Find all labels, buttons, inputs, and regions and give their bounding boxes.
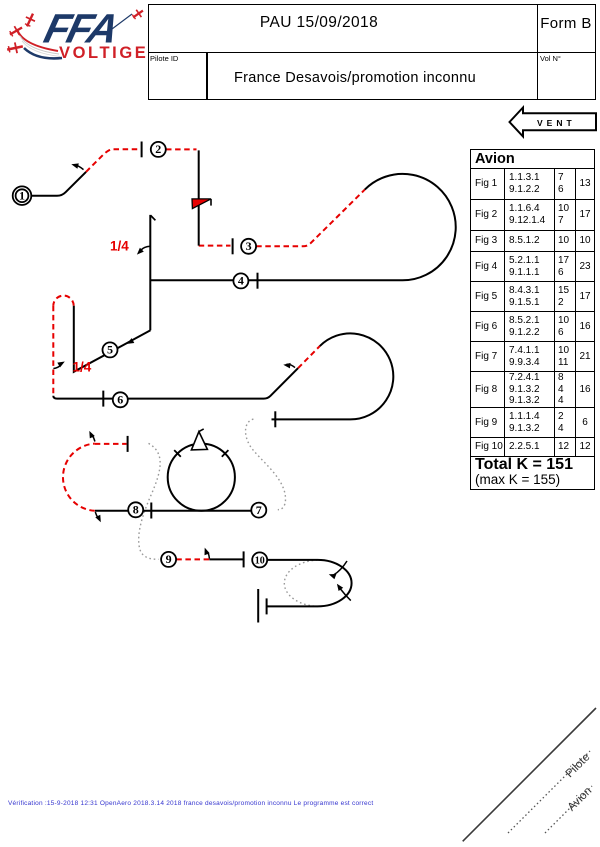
svg-text:1/4: 1/4 <box>110 239 129 254</box>
svg-text:7: 7 <box>256 503 262 517</box>
svg-text:6: 6 <box>117 393 123 407</box>
svg-text:4: 4 <box>238 274 244 288</box>
svg-text:2: 2 <box>155 142 161 156</box>
svg-text:VENT: VENT <box>537 118 576 128</box>
svg-text:10: 10 <box>255 555 265 566</box>
svg-text:Pilote: Pilote <box>564 751 593 780</box>
svg-text:1/4: 1/4 <box>73 360 92 375</box>
svg-text:3: 3 <box>246 239 252 253</box>
svg-text:VOLTIGE: VOLTIGE <box>59 44 148 62</box>
svg-text:5: 5 <box>107 343 113 357</box>
svg-text:Avion: Avion <box>566 785 595 814</box>
svg-text:1: 1 <box>19 188 25 202</box>
svg-text:8: 8 <box>133 503 139 517</box>
svg-text:9: 9 <box>166 552 172 566</box>
